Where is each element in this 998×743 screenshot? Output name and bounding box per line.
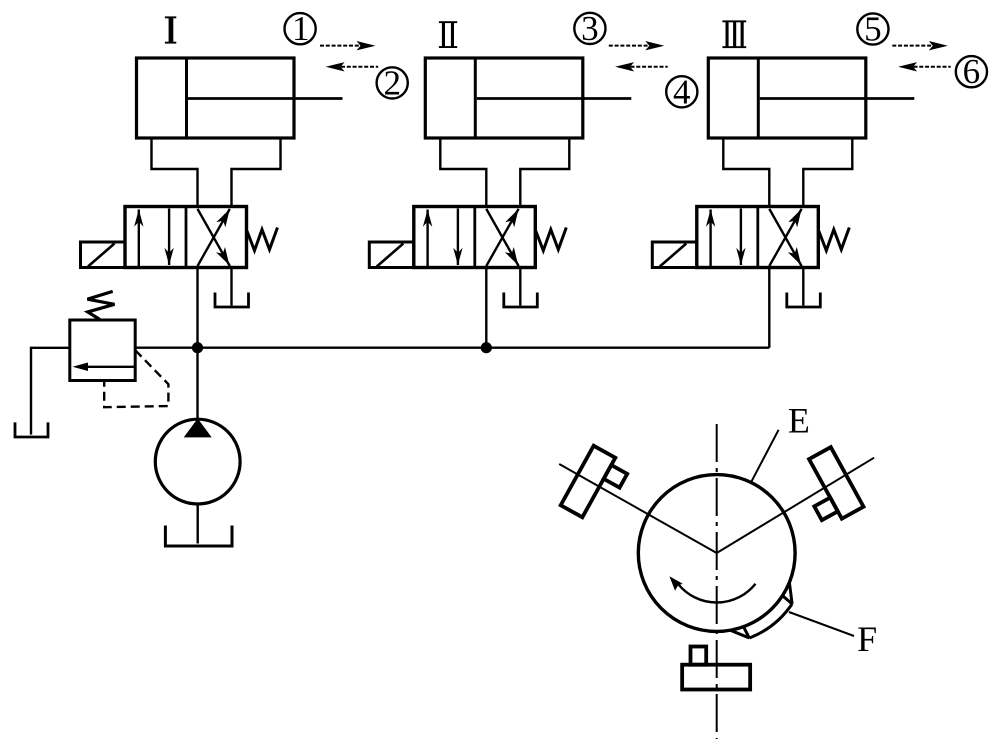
svg-text:E: E (788, 401, 810, 441)
svg-text:2: 2 (383, 63, 401, 102)
svg-text:1: 1 (292, 9, 310, 48)
svg-text:6: 6 (963, 52, 981, 91)
svg-text:5: 5 (864, 10, 882, 49)
svg-text:3: 3 (581, 9, 599, 48)
svg-text:4: 4 (673, 72, 691, 111)
svg-text:F: F (857, 619, 877, 659)
